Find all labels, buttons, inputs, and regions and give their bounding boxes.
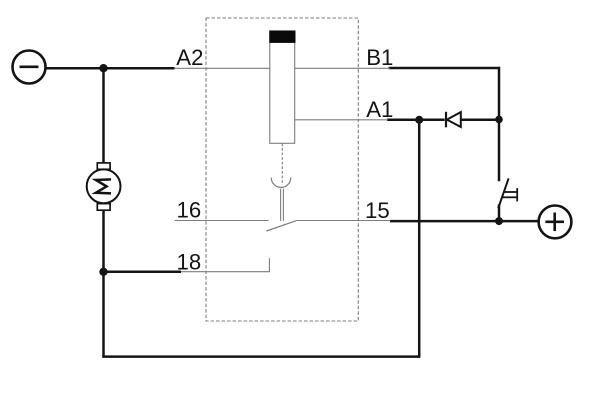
node: junction of push button and 15 wire: [495, 217, 503, 225]
wire: terminal B1 to right corner: [389, 67, 501, 70]
battery negative terminal: [13, 51, 46, 84]
push button S1 (normally open, momentary): [498, 178, 517, 208]
wire: negative terminal to A2: [46, 67, 174, 70]
wire: bottom rail: [102, 355, 420, 358]
relay internal: armature fork: [271, 178, 291, 188]
wire: right riser from bottom rail to node A1: [418, 120, 421, 358]
wire: junction down to motor: [102, 68, 105, 163]
diode D1 (cathode toward A1): [446, 112, 461, 128]
relay internal: lead from coil to B1: [295, 67, 390, 69]
svg-text:A2: A2: [176, 45, 203, 70]
node: junction at top of motor branch: [99, 64, 107, 72]
wire: motor down to bottom-left junction: [102, 210, 105, 357]
svg-text:18: 18: [177, 249, 202, 274]
wire: diode anode to node under B1: [461, 119, 499, 122]
wire: terminal A1 to diode cathode: [387, 119, 445, 122]
relay internal: plunger dashed link: [281, 143, 283, 185]
relay internal: terminal 18 lead (NO contact) with stub: [181, 258, 269, 272]
svg-text:B1: B1: [366, 45, 393, 70]
relay internal: lead from A2 to coil: [175, 67, 270, 69]
svg-text:16: 16: [177, 198, 202, 223]
wire: push button lower contact to node on 15 line: [498, 205, 501, 222]
battery positive terminal: [539, 206, 572, 239]
relay K1 dashed enclosure: [206, 18, 358, 321]
node: junction of motor branch and terminal 18 wire: [99, 268, 107, 276]
svg-text:A1: A1: [366, 97, 393, 122]
relay internal: terminal 15 lead: [296, 220, 391, 222]
node: junction of B1 wire and diode: [495, 116, 503, 124]
svg-text:15: 15: [365, 198, 390, 223]
wire: corner down through node to push button: [498, 67, 501, 181]
relay internal: actuator double stem: [280, 189, 282, 221]
wire: junction to terminal 18: [104, 271, 182, 274]
node: A1 junction: [415, 116, 423, 124]
motor M1: [87, 163, 121, 210]
relay internal: terminal 16 lead (NC contact): [175, 220, 269, 222]
relay internal: movable contact blade: [266, 221, 296, 231]
relay internal: lead from coil to A1: [295, 119, 388, 121]
wire: terminal 15 to positive terminal: [390, 220, 538, 223]
relay coil K1: [269, 31, 295, 144]
